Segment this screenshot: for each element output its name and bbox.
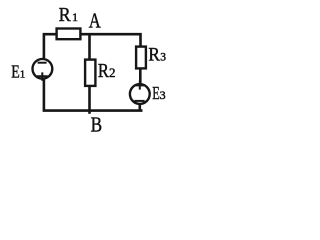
svg-text:1: 1 [20, 69, 26, 81]
svg-text:B: B [91, 113, 103, 137]
svg-text:2: 2 [109, 65, 116, 80]
wire middle branch: node A down to R2 [88, 34, 91, 60]
wire left-bottom: E1 bottom down and along bottom to right end [44, 79, 143, 111]
resistor R3 [136, 47, 146, 69]
svg-text:R: R [59, 4, 72, 26]
label R3 [148, 45, 166, 66]
label R1 [59, 4, 78, 26]
wire stub: E3 bottom to bottom wire [139, 104, 142, 111]
svg-text:R: R [148, 45, 160, 66]
svg-text:E: E [11, 62, 20, 82]
source E1 [33, 59, 53, 81]
resistor R1 [57, 29, 81, 40]
label E1 [11, 62, 25, 82]
source E3 [130, 81, 150, 104]
svg-text:R: R [98, 60, 110, 82]
resistor R2 [85, 60, 95, 86]
wire top: left corner up-right to R3 top [44, 34, 141, 58]
label R2 [98, 60, 116, 82]
wire right branch: R3 bottom to E3 top [139, 69, 142, 85]
label E3 [152, 83, 165, 103]
svg-text:3: 3 [160, 88, 166, 102]
svg-text:3: 3 [160, 52, 166, 64]
svg-text:A: A [89, 9, 102, 33]
svg-text:1: 1 [72, 10, 78, 24]
wire middle branch: R2 bottom to node B [88, 86, 91, 114]
